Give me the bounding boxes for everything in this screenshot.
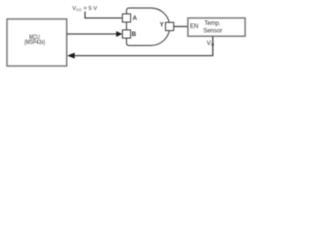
temperature sensor box (188, 18, 245, 36)
Vcc net label (72, 6, 97, 12)
pin A (122, 14, 130, 22)
svg-text:Y: Y (160, 22, 164, 28)
svg-text:A: A (133, 16, 138, 22)
svg-text:(MSP43x): (MSP43x) (24, 40, 45, 47)
arrowhead into MCU (67, 53, 75, 59)
svg-text:Sensor: Sensor (203, 29, 222, 35)
wire: MCU output to gate input B (67, 33, 117, 35)
arrowhead into pin B (116, 31, 122, 37)
MCU box (MSP43x) (7, 19, 67, 66)
svg-text:VCC = 5 V: VCC = 5 V (72, 6, 97, 12)
wire: Vcc stub down and across to gate input A (85, 12, 122, 19)
svg-text:Temp.: Temp. (204, 21, 221, 27)
pin Y (166, 22, 174, 30)
svg-text:VO: VO (207, 41, 215, 47)
AND gate body (127, 8, 170, 46)
wire: gate output Y to sensor EN (174, 26, 189, 28)
svg-text:EN: EN (190, 24, 198, 30)
svg-text:B: B (132, 32, 137, 38)
pin B (122, 30, 130, 38)
wire: sensor Vo down and back to MCU (75, 36, 213, 55)
